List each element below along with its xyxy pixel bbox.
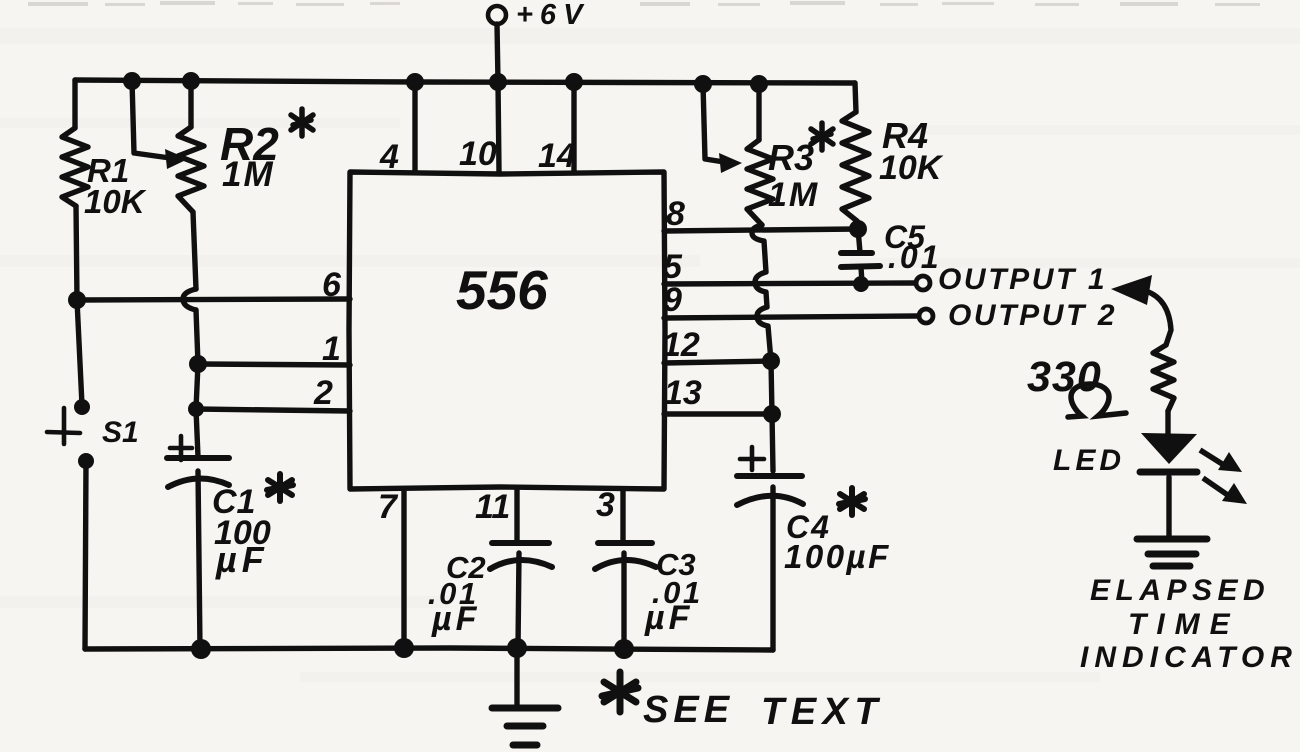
svg-text:TEXT: TEXT (761, 691, 884, 733)
svg-text:TIME: TIME (1128, 608, 1240, 641)
svg-text:9: 9 (663, 281, 682, 319)
svg-text:13: 13 (664, 374, 702, 412)
svg-text:µF: µF (215, 539, 269, 580)
svg-text:ELAPSED: ELAPSED (1090, 574, 1270, 607)
svg-text:SEE: SEE (643, 689, 734, 731)
svg-text:1: 1 (322, 330, 341, 368)
svg-text:14: 14 (538, 137, 576, 175)
svg-text:4: 4 (379, 138, 399, 176)
svg-text:8: 8 (666, 195, 685, 233)
svg-text:LED: LED (1053, 444, 1125, 477)
svg-text:µF: µF (431, 600, 480, 638)
svg-text:µF: µF (644, 599, 693, 637)
svg-text:OUTPUT 2: OUTPUT 2 (948, 299, 1117, 332)
svg-text:S1: S1 (102, 416, 139, 449)
svg-text:1M: 1M (768, 176, 819, 214)
svg-text:+6V: +6V (516, 0, 589, 31)
svg-text:6: 6 (322, 266, 342, 304)
svg-text:11: 11 (475, 488, 510, 526)
svg-text:.01: .01 (888, 239, 941, 275)
svg-text:3: 3 (596, 486, 615, 524)
svg-text:100µF: 100µF (784, 538, 891, 575)
svg-text:INDICATOR: INDICATOR (1080, 641, 1298, 674)
svg-text:R3: R3 (768, 137, 814, 178)
svg-text:2: 2 (313, 374, 333, 412)
svg-text:OUTPUT 1: OUTPUT 1 (938, 263, 1107, 296)
svg-text:10K: 10K (879, 149, 944, 187)
svg-text:12: 12 (662, 326, 700, 364)
svg-text:330: 330 (1027, 353, 1102, 401)
svg-text:7: 7 (378, 488, 399, 526)
svg-text:556: 556 (456, 259, 548, 321)
svg-text:10K: 10K (84, 183, 147, 220)
svg-text:1M: 1M (222, 155, 275, 194)
svg-text:10: 10 (459, 135, 497, 173)
